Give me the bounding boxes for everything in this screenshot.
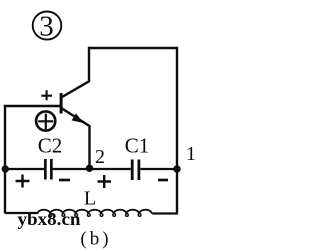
polarity + of C2 xyxy=(16,175,30,188)
polarity + of C1 xyxy=(98,175,112,188)
node junction dot on left rail xyxy=(2,165,9,172)
wire C2 row xyxy=(5,168,177,170)
wire left rail xyxy=(4,105,6,214)
transistor (NPN) xyxy=(60,47,90,168)
node 2 junction dot xyxy=(86,165,93,172)
svg-text:L: L xyxy=(84,188,96,210)
inductor L coil xyxy=(38,210,152,217)
wire bottom right segment xyxy=(152,212,178,214)
capacitor C1 xyxy=(131,160,141,181)
capacitor C2 xyxy=(44,159,53,180)
svg-text:3: 3 xyxy=(39,11,54,43)
svg-text:(b): (b) xyxy=(80,229,111,250)
svg-text:2: 2 xyxy=(95,146,105,168)
wire top (collector to node 1 rail) xyxy=(89,47,177,49)
svg-text:C2: C2 xyxy=(38,134,63,158)
wire right rail xyxy=(176,47,178,214)
wire bottom left segment xyxy=(5,212,38,214)
circled figure number 3 xyxy=(33,11,62,43)
phase symbol (circle with plus) xyxy=(36,111,55,130)
polarity - of C2 xyxy=(59,179,70,182)
polarity - of C1 xyxy=(158,179,168,182)
svg-text:1: 1 xyxy=(186,143,196,165)
svg-text:C1: C1 xyxy=(125,134,150,158)
node 1 junction dot xyxy=(173,165,180,172)
svg-text:ybx8.cn: ybx8.cn xyxy=(18,209,81,229)
wire base lead xyxy=(4,105,60,107)
polarity + at base xyxy=(41,90,52,100)
